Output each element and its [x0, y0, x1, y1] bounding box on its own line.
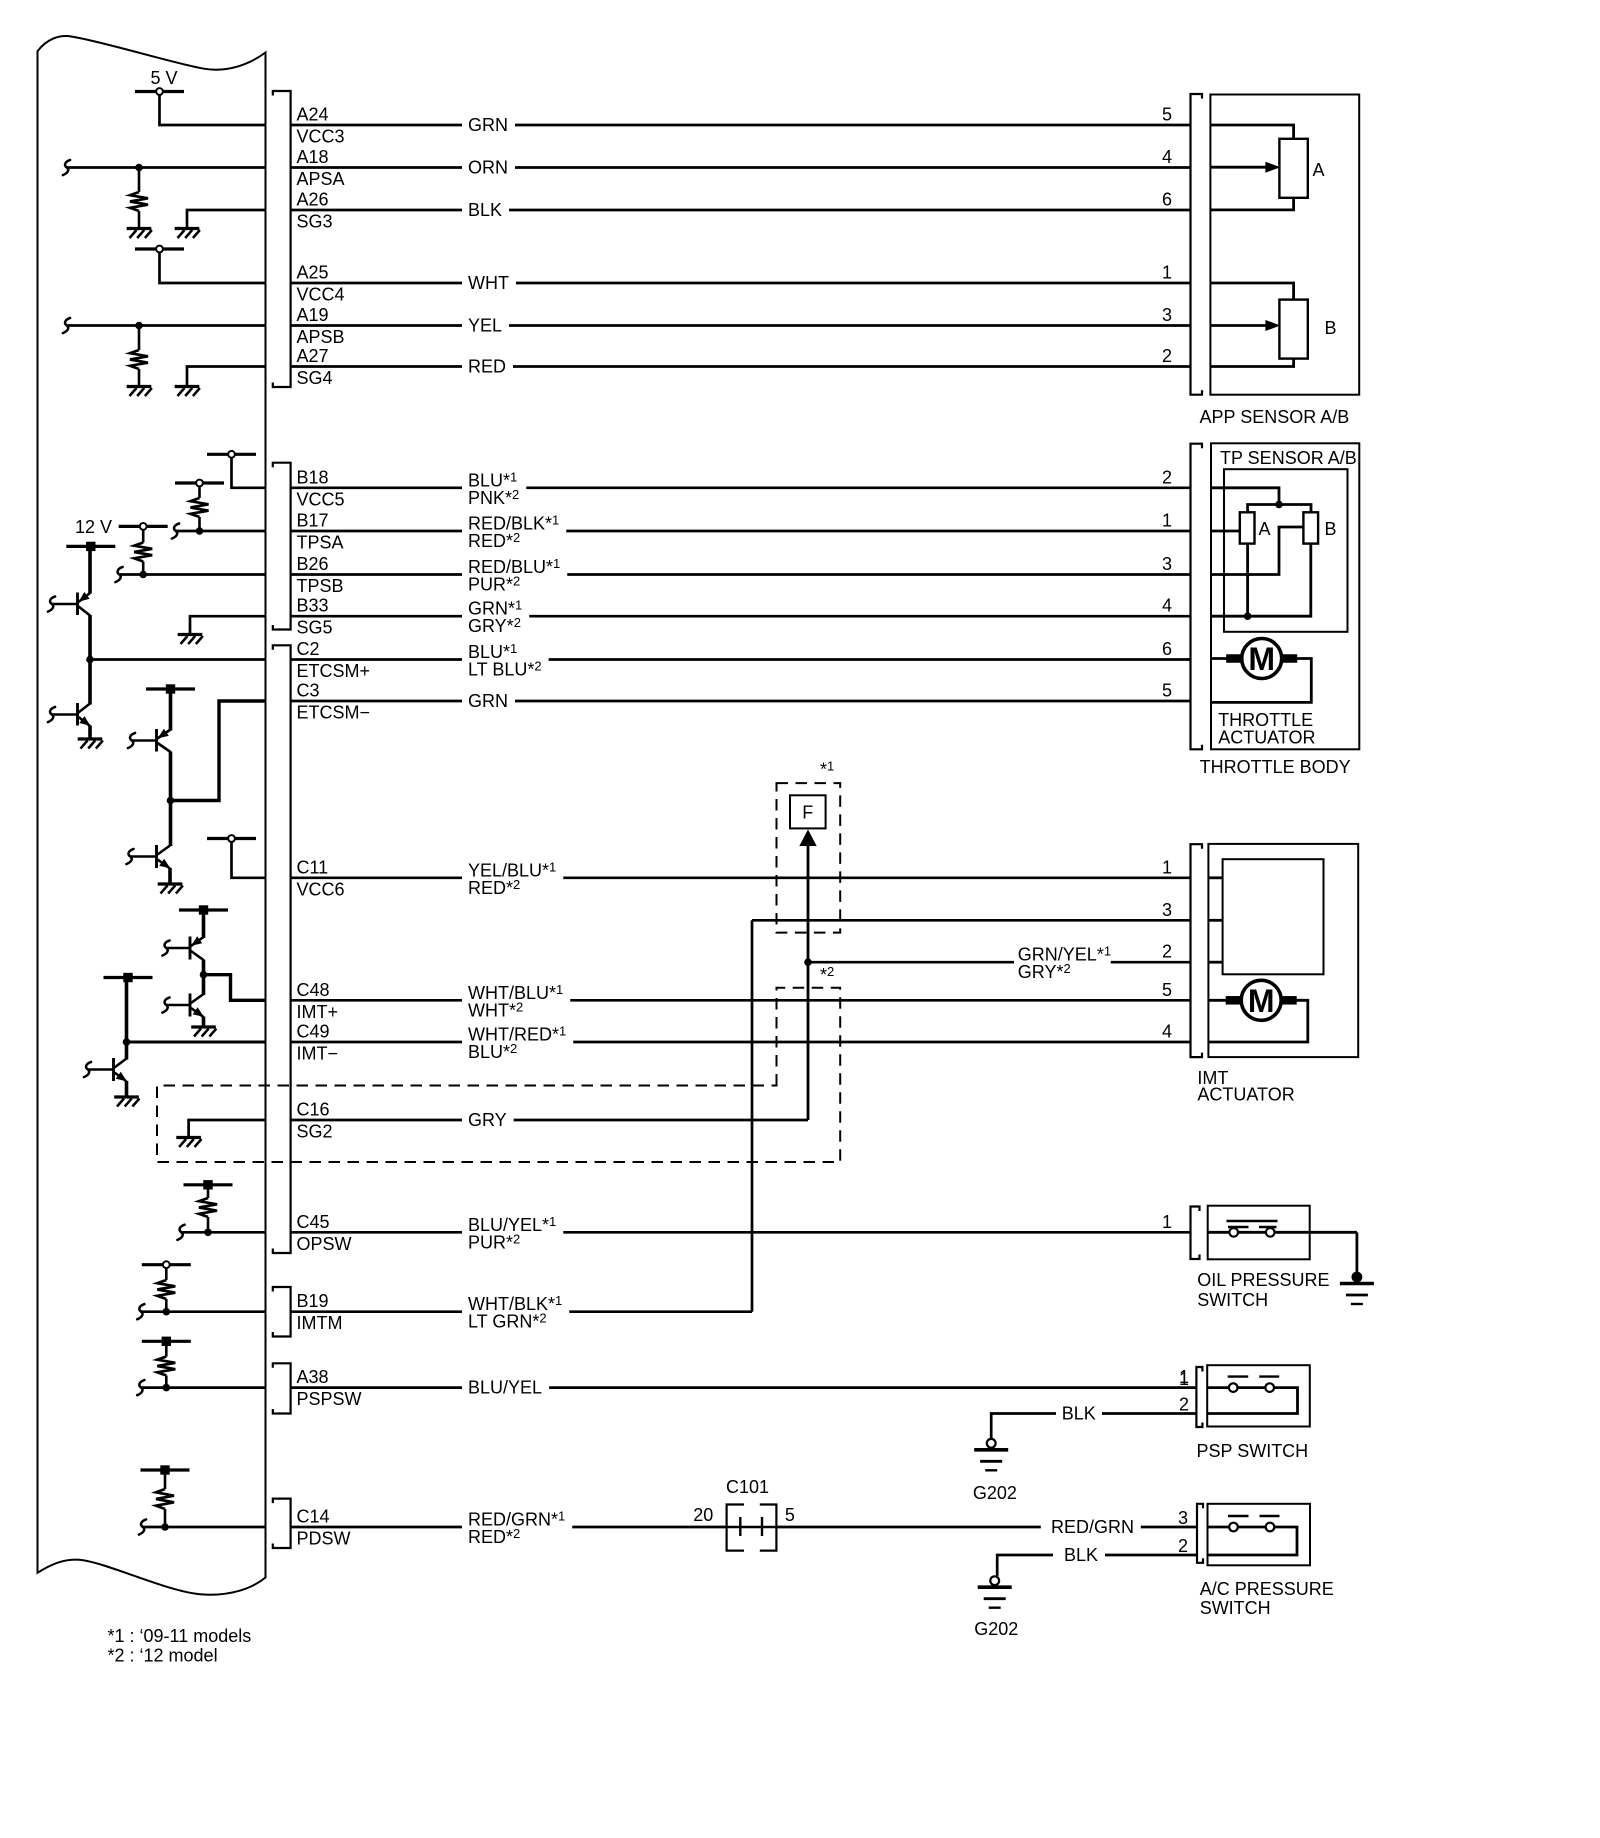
svg-text:B17: B17: [297, 511, 329, 531]
fuse box F (*1 routing): [790, 795, 826, 828]
svg-text:4: 4: [1162, 1022, 1172, 1042]
svg-text:C16: C16: [297, 1100, 330, 1120]
junction APSB/resistor: [135, 322, 143, 330]
svg-text:3: 3: [1162, 900, 1172, 920]
junction ETCSM- node: [167, 797, 175, 805]
svg-text:A: A: [1259, 519, 1271, 539]
wire Q7 base stub: [84, 1062, 91, 1077]
connector bracket IMT actuator: [1191, 844, 1203, 1057]
svg-text:PNK*2: PNK*2: [468, 487, 519, 508]
node supply bar (TPSA pull-up): [175, 481, 224, 484]
svg-text:ACTUATOR: ACTUATOR: [1218, 728, 1315, 748]
junction SG5/pot A: [1244, 612, 1252, 620]
svg-text:4: 4: [1162, 147, 1172, 167]
wire Q7 emitter to ground: [125, 1081, 129, 1096]
wire Q1 base stub: [48, 596, 55, 611]
svg-text:ETCSM+: ETCSM+: [297, 661, 371, 681]
connector bracket APP sensor: [1191, 94, 1203, 395]
junction IMTM/resistor: [163, 1308, 171, 1316]
wire supply to Q7 collector: [125, 978, 129, 1060]
svg-text:WHT: WHT: [468, 273, 509, 293]
junction ETCSM+ node: [86, 656, 94, 664]
potentiometer B (TP): [1303, 512, 1318, 543]
svg-text:3: 3: [1162, 554, 1172, 574]
component box PSP SWITCH: [1207, 1365, 1310, 1426]
transistor Q4 (NPN, ETCSM- low side): [155, 845, 158, 868]
wire TPSA to pot A: [1211, 530, 1240, 533]
node supply bar (ETCSM- driver): [146, 687, 195, 690]
wiper arrow APP-A: [1210, 166, 1266, 169]
svg-text:BLK: BLK: [1062, 1404, 1096, 1424]
svg-text:*2 : ‘12 model: *2 : ‘12 model: [108, 1646, 218, 1666]
wire VCC6 into IMT: [1208, 876, 1222, 879]
switch contacts (oil pressure): [1228, 1226, 1249, 1228]
wire APP-B bottom lead: [1210, 358, 1293, 366]
svg-text:BLK: BLK: [468, 200, 502, 220]
svg-text:ETCSM−: ETCSM−: [297, 703, 371, 723]
wire VCC5 to B18 pin: [232, 458, 266, 488]
svg-text:B26: B26: [297, 554, 329, 574]
wire TPSA input stub: [172, 523, 179, 538]
node supply bar (OPSW pull-up): [184, 1183, 233, 1186]
wire BLK corner to G202: [991, 1414, 1056, 1440]
svg-text:GRN: GRN: [468, 691, 508, 711]
svg-text:C45: C45: [297, 1212, 330, 1232]
svg-text:1: 1: [1162, 511, 1172, 531]
resistor pull-down APSB: [138, 326, 141, 351]
svg-text:TP SENSOR A/B: TP SENSOR A/B: [1220, 448, 1357, 468]
node supply bar (IMT+ driver): [179, 908, 228, 911]
svg-text:1: 1: [1179, 1369, 1189, 1389]
junction IMT- node: [123, 1038, 131, 1046]
dashed box *1 (09-11 models routing): [777, 783, 841, 933]
svg-text:PDSW: PDSW: [297, 1529, 351, 1549]
svg-text:M: M: [1248, 641, 1275, 677]
svg-text:TPSB: TPSB: [297, 576, 344, 596]
svg-text:SG4: SG4: [297, 368, 333, 388]
wire SG3 to A26 pin: [187, 210, 266, 229]
wire OPSW through switch: [1208, 1231, 1357, 1234]
svg-text:GRY: GRY: [468, 1110, 507, 1130]
svg-text:GRN: GRN: [468, 115, 508, 135]
svg-text:12 V: 12 V: [75, 517, 112, 537]
svg-text:B: B: [1325, 318, 1337, 338]
node supply bar (PSPSW pull-up): [142, 1340, 191, 1343]
ground (Q6 emitter): [191, 1025, 216, 1028]
transistor Q1 (PNP, ETCSM+ high side): [76, 593, 79, 616]
connector bracket B19/IMTM: [273, 1287, 291, 1337]
wire TPSB to pot B: [1211, 527, 1303, 575]
ground (SG5): [178, 633, 203, 636]
wire IMT+ to motor: [1208, 999, 1227, 1002]
wire BLK A/C to ground: [1105, 1554, 1197, 1557]
wire C2/ETCSM+ to pin: [90, 658, 266, 661]
wire IMT motor feed GRN/YEL (pin 2): [808, 961, 1014, 964]
potentiometer A (TP): [1240, 512, 1255, 543]
svg-text:RED*2: RED*2: [468, 1526, 520, 1547]
resistor pull-up TPSA: [198, 486, 201, 498]
svg-text:G202: G202: [973, 1483, 1017, 1503]
transistor Q5 (PNP, IMT+ high side): [189, 937, 192, 960]
wire BLK PSP to ground: [1102, 1412, 1196, 1415]
svg-text:A24: A24: [297, 105, 329, 125]
transistor Q7 (NPN, IMT- low side): [112, 1058, 115, 1081]
resistor pull-up PSPSW: [165, 1341, 168, 1356]
connector bracket A24-SG4: [273, 91, 291, 387]
transistor Q3 (PNP, ETCSM- high side): [155, 729, 158, 752]
wire IMTM into IMT: [1208, 919, 1222, 922]
wire Q5 emitter to IMT+ node: [202, 960, 206, 975]
node supply bar (PDSW pull-up): [141, 1468, 190, 1471]
wire Q1 emitter to C2 node: [88, 615, 92, 660]
svg-text:PSPSW: PSPSW: [297, 1389, 362, 1409]
svg-text:2: 2: [1162, 942, 1172, 962]
wire F-branch into IMT: [1208, 961, 1222, 964]
svg-text:SWITCH: SWITCH: [1197, 1290, 1268, 1310]
inner block IMT electronics: [1223, 859, 1324, 974]
wire Q6 base stub: [162, 997, 169, 1012]
junction F-branch / IMT pin 2: [804, 958, 812, 966]
wire supply to Q3 collector: [169, 689, 173, 731]
ground (SG3): [175, 227, 200, 230]
junction OPSW/resistor: [204, 1229, 212, 1237]
svg-text:C48: C48: [297, 980, 330, 1000]
ground (Q2 emitter): [78, 737, 103, 740]
wire RED/GRN C101 to A/C switch: [776, 1526, 1040, 1529]
connector bracket oil pressure switch: [1191, 1207, 1200, 1260]
svg-text:A27: A27: [297, 346, 329, 366]
component box APP sensor: [1210, 95, 1359, 395]
svg-text:2: 2: [1162, 467, 1172, 487]
switch contacts (A/C): [1228, 1515, 1249, 1517]
svg-text:B18: B18: [297, 467, 329, 487]
svg-text:B19: B19: [297, 1291, 329, 1311]
wire OPSW input stub: [177, 1225, 184, 1240]
wire BLK corner to G202 (A/C): [997, 1555, 1053, 1576]
wire A/C pin3 through switch: [1208, 1527, 1298, 1555]
svg-text:VCC5: VCC5: [297, 489, 345, 509]
svg-text:PUR*2: PUR*2: [468, 574, 520, 595]
wire IMTM riser to IMT pin 3: [751, 920, 754, 1311]
svg-text:VCC4: VCC4: [297, 285, 345, 305]
ground (APSB pull-down): [127, 385, 152, 388]
svg-text:6: 6: [1162, 190, 1172, 210]
ground G202 (A/C): [990, 1576, 999, 1585]
svg-text:RED: RED: [468, 357, 506, 377]
svg-text:SWITCH: SWITCH: [1200, 1598, 1271, 1618]
svg-text:PUR*2: PUR*2: [468, 1231, 520, 1252]
svg-text:1: 1: [1162, 1212, 1172, 1232]
svg-text:4: 4: [1162, 596, 1172, 616]
svg-text:C11: C11: [297, 857, 329, 877]
wire pot A to SG5: [1246, 544, 1249, 616]
wire 12V to Q1 collector: [88, 546, 92, 593]
junction PSPSW/resistor: [163, 1384, 171, 1392]
wire SG5 to B33 pin: [190, 616, 266, 634]
svg-text:A26: A26: [297, 190, 329, 210]
wire APP-A bottom lead: [1210, 197, 1293, 210]
svg-text:VCC3: VCC3: [297, 127, 345, 147]
svg-text:APP SENSOR A/B: APP SENSOR A/B: [1200, 407, 1350, 427]
svg-text:PSP SWITCH: PSP SWITCH: [1197, 1441, 1309, 1461]
inner box TP sensor: [1224, 469, 1348, 632]
svg-text:BLU*2: BLU*2: [468, 1041, 517, 1062]
svg-text:OIL PRESSURE: OIL PRESSURE: [1197, 1270, 1329, 1290]
ground (Q7 emitter): [114, 1095, 139, 1098]
node 5V bus bar (VCC6 supply): [207, 837, 256, 840]
ground (APSA pull-down): [127, 227, 152, 230]
wire Q4 emitter to ground: [168, 868, 172, 883]
node 12V bus bar (ETCS driver): [66, 545, 115, 548]
wire Q3 emitter to C3 node: [169, 752, 173, 801]
wire PSPSW input stub: [137, 1380, 144, 1395]
svg-text:IMT−: IMT−: [297, 1044, 339, 1064]
resistor pull-up TPSB: [142, 530, 145, 543]
svg-text:C3: C3: [297, 681, 320, 701]
svg-text:3: 3: [1162, 305, 1172, 325]
wire node to Q2 collector: [88, 660, 92, 705]
wire Q5 base stub: [162, 940, 169, 955]
transistor Q6 (NPN, IMT+ low side): [189, 994, 192, 1017]
svg-text:GRY*2: GRY*2: [1018, 961, 1071, 982]
wire PSP pin1 through switch: [1207, 1388, 1297, 1414]
svg-text:5: 5: [1162, 980, 1172, 1000]
svg-text:3: 3: [1178, 1508, 1188, 1528]
connector bracket A/C pressure switch: [1197, 1504, 1203, 1563]
wire C3/ETCSM- to pin: [171, 701, 266, 801]
wire APSB input stub: [63, 318, 70, 333]
svg-text:20: 20: [693, 1505, 713, 1525]
wire SG4 to A27 pin: [187, 367, 266, 387]
ground (oil pressure switch): [1352, 1272, 1363, 1283]
svg-text:WHT*2: WHT*2: [468, 999, 523, 1020]
svg-text:G202: G202: [974, 1619, 1018, 1639]
svg-text:RED/GRN: RED/GRN: [1051, 1517, 1134, 1537]
svg-text:A38: A38: [297, 1367, 329, 1387]
wire VCC5 into TP sensor: [1211, 488, 1279, 505]
resistor pull-up OPSW: [207, 1185, 210, 1198]
svg-text:*1 : ‘09-11 models: *1 : ‘09-11 models: [108, 1626, 252, 1646]
svg-text:*1: *1: [820, 759, 834, 780]
svg-text:1: 1: [1162, 263, 1172, 283]
potentiometer A (APP): [1279, 139, 1307, 198]
ground (SG4): [175, 385, 200, 388]
wire SG5 return from pots: [1211, 544, 1311, 616]
component box THROTTLE BODY: [1211, 443, 1359, 749]
wire APP-B top lead: [1210, 283, 1293, 300]
svg-text:5: 5: [785, 1505, 795, 1525]
ECM connector strip (torn-edge outline): [38, 36, 266, 1595]
connector bracket A38/PSPSW: [273, 1363, 291, 1413]
junction TPSA/resistor: [196, 527, 204, 535]
resistor pull-down APSA: [138, 168, 141, 193]
junction PDSW/resistor: [161, 1523, 169, 1531]
ground (Q4 emitter): [158, 882, 183, 885]
svg-text:A/C PRESSURE: A/C PRESSURE: [1200, 1579, 1334, 1599]
component box IMT ACTUATOR: [1208, 844, 1358, 1057]
wire VCC6 to C11 pin: [232, 842, 266, 878]
svg-text:IMT+: IMT+: [297, 1002, 339, 1022]
junction TPSB/resistor: [139, 571, 147, 579]
svg-text:A25: A25: [297, 263, 329, 283]
svg-text:6: 6: [1162, 639, 1172, 659]
svg-text:M: M: [1248, 983, 1275, 1019]
wire motor to ETCSM-: [1211, 659, 1311, 703]
node supply bar (IMT- driver): [104, 976, 153, 979]
node 5V bus bar (VCC3 supply): [135, 90, 184, 93]
svg-text:*2: *2: [820, 964, 834, 985]
svg-text:F: F: [802, 803, 813, 823]
svg-text:APSB: APSB: [297, 327, 345, 347]
wire switch to ground: [1356, 1232, 1359, 1272]
wire C49/IMT- to pin: [127, 1041, 266, 1044]
junction APSA/resistor: [135, 164, 143, 172]
svg-text:2: 2: [1162, 346, 1172, 366]
svg-text:TPSA: TPSA: [297, 533, 344, 553]
wire 5V to A25 pin: [160, 252, 266, 283]
wire Q2 base stub: [48, 707, 55, 722]
node supply bar (IMTM pull-up): [142, 1263, 191, 1266]
node 5V bus bar (VCC5 supply): [207, 453, 256, 456]
svg-text:VCC6: VCC6: [297, 879, 345, 899]
wire APP-A top lead: [1210, 125, 1293, 140]
wire C48/IMT+ to pin: [204, 975, 266, 1001]
svg-text:ORN: ORN: [468, 158, 508, 178]
wire IMTM input stub: [137, 1304, 144, 1319]
svg-text:GRY*2: GRY*2: [468, 615, 521, 636]
wire 5V to A24 pin: [160, 95, 266, 125]
wire Q4 base stub: [126, 849, 133, 864]
svg-text:YEL: YEL: [468, 316, 502, 336]
ground (SG2): [176, 1136, 201, 1139]
transistor Q2 (NPN, ETCSM+ low side): [76, 703, 79, 726]
wiper arrow APP-B: [1210, 324, 1266, 327]
resistor pull-up PDSW: [164, 1470, 167, 1489]
switch contacts (PSP): [1228, 1375, 1249, 1377]
svg-text:THROTTLE BODY: THROTTLE BODY: [1200, 757, 1351, 777]
svg-text:A19: A19: [297, 305, 329, 325]
wire Q3 base stub: [128, 733, 135, 748]
wire motor to IMT-: [1208, 1000, 1307, 1042]
svg-text:BLU/YEL: BLU/YEL: [468, 1378, 542, 1398]
wire Q2 emitter to ground: [88, 726, 92, 739]
wire PDSW input stub: [139, 1519, 146, 1534]
svg-text:SG2: SG2: [297, 1122, 333, 1142]
svg-text:C49: C49: [297, 1022, 330, 1042]
wire Q6 emitter to ground: [202, 1017, 206, 1027]
svg-text:IMTM: IMTM: [297, 1313, 343, 1333]
motor M (throttle actuator): [1242, 639, 1282, 679]
arrow to fuse F: [799, 830, 816, 847]
switch blade (oil pressure): [1227, 1220, 1278, 1222]
dashed region *2 (12 model routing incl. SG2 ground): [157, 988, 840, 1162]
svg-text:C101: C101: [726, 1477, 769, 1497]
junction IMT+ node: [200, 971, 208, 979]
svg-text:2: 2: [1179, 1395, 1189, 1415]
svg-text:5 V: 5 V: [151, 68, 178, 88]
svg-text:B33: B33: [297, 596, 329, 616]
junction TP supply rail: [1275, 501, 1283, 509]
node 5V bus bar (VCC4 supply): [135, 247, 184, 250]
connector bracket C2-OPSW: [273, 645, 291, 1253]
component box OIL PRESSURE SWITCH: [1208, 1206, 1310, 1260]
svg-text:SG3: SG3: [297, 212, 333, 232]
svg-text:RED*2: RED*2: [468, 877, 520, 898]
svg-text:B: B: [1325, 519, 1337, 539]
svg-text:2: 2: [1178, 1536, 1188, 1556]
connector bracket PSP switch: [1196, 1367, 1202, 1427]
svg-text:A: A: [1313, 160, 1325, 180]
svg-text:5: 5: [1162, 681, 1172, 701]
svg-text:C2: C2: [297, 639, 320, 659]
svg-text:SG5: SG5: [297, 618, 333, 638]
wire node to Q6 collector: [202, 975, 206, 995]
wire TP supply rail: [1248, 505, 1311, 513]
wire TPSB input stub: [115, 567, 122, 582]
component box A/C PRESSURE SWITCH: [1208, 1504, 1311, 1566]
ground G202 (PSP): [987, 1439, 996, 1448]
svg-text:RED*2: RED*2: [468, 530, 520, 551]
svg-text:LT BLU*2: LT BLU*2: [468, 659, 542, 680]
wire supply to Q5 collector: [202, 910, 206, 938]
svg-text:C14: C14: [297, 1507, 330, 1527]
svg-text:A18: A18: [297, 147, 329, 167]
wire ETCSM+ to motor: [1211, 657, 1228, 660]
svg-text:5: 5: [1162, 105, 1172, 125]
wire APSA input stub: [63, 160, 70, 175]
potentiometer B (APP): [1279, 300, 1307, 359]
connector bracket throttle body: [1191, 444, 1203, 750]
connector bracket C14/PDSW: [273, 1499, 291, 1548]
svg-text:1: 1: [1162, 857, 1172, 877]
motor M (IMT actuator): [1241, 980, 1281, 1020]
wire IMT motor control (pin 3): [752, 919, 1191, 922]
connector bracket B18-SG5: [273, 463, 291, 630]
svg-text:LT GRN*2: LT GRN*2: [468, 1311, 547, 1332]
svg-text:APSA: APSA: [297, 169, 345, 189]
wire node to Q4 collector: [169, 801, 173, 847]
node 12V bus bar (TPSB pull-up): [119, 525, 168, 528]
resistor pull-up IMTM: [165, 1268, 168, 1280]
svg-text:OPSW: OPSW: [297, 1234, 352, 1254]
svg-text:ACTUATOR: ACTUATOR: [1197, 1085, 1294, 1105]
svg-text:BLK: BLK: [1064, 1545, 1098, 1565]
inline connector C101: [727, 1505, 744, 1551]
wire SG2 to C16 pin: [189, 1120, 266, 1138]
